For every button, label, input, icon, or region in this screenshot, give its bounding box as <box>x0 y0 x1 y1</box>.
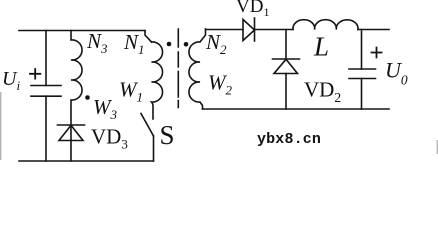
svg-text:Ui: Ui <box>2 68 20 93</box>
scan artifact left edge <box>0 92 1 160</box>
polarity plus of Uo <box>372 48 382 58</box>
svg-text:N1: N1 <box>123 30 145 57</box>
svg-text:S: S <box>160 120 175 150</box>
svg-text:ybx8.cn: ybx8.cn <box>257 131 321 148</box>
diode VD2 bottom lead <box>285 74 287 110</box>
diode VD2 cathode bar <box>273 58 300 60</box>
svg-text:VD3: VD3 <box>91 125 128 152</box>
svg-text:VD1: VD1 <box>236 0 269 19</box>
polarity dot W2 <box>184 42 189 47</box>
wire: secondary bottom rail <box>203 108 390 110</box>
svg-text:N2: N2 <box>205 30 227 57</box>
diode VD3 triangle <box>59 125 83 140</box>
svg-text:W2: W2 <box>208 71 233 98</box>
wire: L to output terminal <box>358 29 389 31</box>
transformer core (dashed) <box>177 29 179 108</box>
wire: secondary top rail (winding to VD1) <box>206 29 244 31</box>
svg-text:VD2: VD2 <box>304 78 341 106</box>
winding W1 top lead <box>145 31 152 43</box>
diode VD2 anode lead from top node <box>285 30 287 60</box>
diode VD3 cathode bar <box>58 124 85 126</box>
diode VD1 triangle <box>243 20 255 41</box>
switch S bottom lead <box>153 136 155 161</box>
svg-text:L: L <box>313 32 329 62</box>
polarity dot W1 <box>167 42 172 47</box>
winding N2 secondary <box>189 29 206 109</box>
svg-text:W3: W3 <box>93 95 118 122</box>
polarity plus of Ui <box>30 69 40 79</box>
polarity dot W3 <box>85 95 90 100</box>
scan artifact right edge <box>437 140 438 154</box>
svg-text:N3: N3 <box>86 29 108 56</box>
diode VD1 cathode bar <box>254 18 256 41</box>
switch S blade <box>141 114 154 137</box>
winding N1 primary <box>152 42 163 119</box>
winding N3 (demagnetizing) <box>71 31 82 162</box>
capacitor output (plates) <box>349 69 376 79</box>
wire: VD1 to inductor L <box>255 29 294 31</box>
capacitor input filter (plates) <box>31 86 61 97</box>
capacitor output (top lead) <box>361 30 363 70</box>
inductor L <box>293 20 358 30</box>
capacitor input filter (bottom lead) <box>45 96 47 161</box>
wire: primary top rail <box>19 30 145 32</box>
diode VD2 triangle <box>274 59 298 73</box>
svg-text:U0: U0 <box>385 58 408 88</box>
capacitor output (bottom lead) <box>361 79 363 110</box>
capacitor input filter (top lead) <box>45 31 47 86</box>
wire: primary bottom rail <box>19 160 154 162</box>
svg-text:W1: W1 <box>119 78 143 105</box>
